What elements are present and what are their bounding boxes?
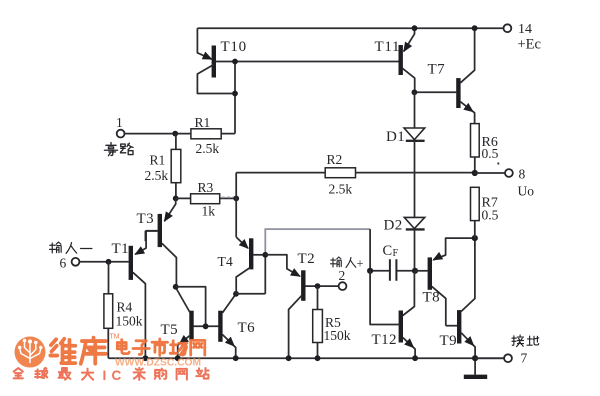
node output / R6-R7 junction [472,170,478,176]
node T4 base / T2 emitter [262,252,268,258]
node T10 collector [232,91,238,97]
svg-text:+: + [357,257,364,271]
svg-text:150k: 150k [116,314,143,329]
label T5 [161,322,178,338]
capacitor CF [370,243,415,281]
transistor T7 [414,28,476,123]
transistor T11 [400,28,415,92]
svg-text:T10: T10 [221,39,247,55]
node R1v bottom / R3 left / T3 emitter [173,196,179,202]
wire bottom ground rail [108,357,504,359]
svg-text:T6: T6 [238,320,256,336]
watermark slogan 全球最大IC采购网站 [14,368,209,383]
node T5 collector tie [173,284,179,290]
node T1 collector on rail [143,355,149,361]
svg-text:T7: T7 [428,62,446,78]
wire top +Ec rail [197,27,503,29]
terminal 1 bypass [116,115,175,138]
svg-text:R1: R1 [195,115,211,130]
resistor R7 0.5 [471,187,499,238]
node T9 collector / T8 emitter / R7 bottom [472,235,478,241]
label T7 [428,62,446,78]
svg-text:0.5: 0.5 [482,146,499,161]
svg-text:T8: T8 [423,290,440,306]
label 输入+ [331,257,364,271]
svg-text:R3: R3 [198,180,214,195]
svg-text:8: 8 [519,167,526,182]
transistor T1 [80,231,158,359]
resistor R6 0.5 [471,124,499,173]
svg-text:TM: TM [110,334,120,341]
svg-text:T4: T4 [218,254,234,269]
diode D2 [384,217,425,270]
terminal 7 ground [475,351,527,366]
wire T10 base-collector tie down to R1 [234,62,236,134]
node T6 collector / T4 collector [233,291,239,297]
label T12 [372,332,397,348]
label T8 [423,290,440,306]
svg-text:2: 2 [339,268,346,283]
scan smudge near R3 [222,196,236,198]
node T5-T6 base [203,323,209,329]
node T2 base / R5 top [315,283,321,289]
node CF right / T8 base / D2 / T12 collector [412,268,418,274]
watermark 维库 [50,338,105,364]
svg-text:F: F [393,248,399,259]
svg-text:T11: T11 [375,39,401,55]
label T10 [221,39,247,55]
transistor T10 [197,28,398,93]
transistor T3 [132,198,176,286]
label 旁路 [104,143,133,156]
svg-text:I: I [103,368,107,383]
label T1 [112,241,129,257]
node T7 base / D1 top [412,89,418,95]
label T6 [238,320,256,336]
svg-text:R4: R4 [117,300,133,315]
svg-text:C: C [383,243,393,259]
node T7 collector on rail [472,25,478,31]
svg-text:D1: D1 [386,129,405,145]
node R5 bottom on rail [315,355,321,361]
node T6 emitter on rail [233,355,239,361]
terminal 2 input+ [339,268,347,290]
label 输入一 [50,242,92,253]
transistor T12 [370,271,417,358]
transistor T4 [236,237,265,294]
label T4 [218,254,234,269]
svg-text:0.5: 0.5 [482,208,499,223]
label T11 [375,39,401,55]
node T11 emitter on rail [412,25,418,31]
svg-text:2.5k: 2.5k [329,182,353,197]
svg-text:D2: D2 [384,218,403,234]
transistor T2 [265,255,338,358]
label T2 [298,251,315,267]
wire R2 left down to T4 emitter [235,173,237,238]
transistor T5 [176,288,219,359]
resistor R5 150k [313,286,351,358]
svg-text:R1: R1 [150,153,166,168]
svg-text:T5: T5 [161,322,178,338]
svg-text:C: C [112,368,122,383]
svg-text:14: 14 [518,22,532,37]
resistor R1 horizontal 2.5k [175,115,235,156]
label T3 [137,211,154,227]
wire T5 base tie [176,287,206,327]
ground symbol [464,358,487,377]
svg-text:T2: T2 [298,251,315,267]
transistor T8 [415,238,475,326]
svg-text:+Ec: +Ec [518,37,541,53]
svg-text:Uo: Uo [518,184,535,199]
stray mark [497,162,499,164]
node ground on rail [472,355,478,361]
terminal 6 input- [60,256,80,271]
watermark logo disc [15,337,46,368]
watermark 电子市场网 [117,339,204,356]
node CF left / T12 base [367,268,373,274]
svg-text:2.5k: 2.5k [196,141,220,156]
resistor R4 150k [104,262,143,358]
svg-text:1k: 1k [202,204,216,219]
svg-text:R2: R2 [327,152,343,167]
terminal 14 +Ec [504,22,541,53]
svg-text:T1: T1 [112,241,129,257]
svg-text:WWW.DZSC.COM: WWW.DZSC.COM [115,358,201,369]
resistor R3 1k [176,180,237,219]
svg-text:7: 7 [521,351,528,366]
node T5 emitter on rail [175,355,181,361]
node T10 base [232,59,238,65]
node T2 collector on rail [286,355,292,361]
label 接地 [512,335,539,346]
diode D1 [386,92,425,145]
svg-text:150k: 150k [324,328,351,343]
label T9 [440,333,457,349]
wire T12 base riser [369,229,371,271]
node T1 base / R4 top [106,259,112,265]
node R3 right on vertical [233,196,239,202]
wire T4 base down to collector node [264,255,266,294]
svg-text:6: 6 [60,256,67,271]
transistor T9 [446,238,478,358]
resistor R2 2.5k [236,152,475,197]
transistor T6 [220,294,237,358]
WATERMARK [14,334,209,384]
svg-text:2.5k: 2.5k [145,168,169,183]
svg-text:1: 1 [116,115,123,130]
wire T4 base up and over to T12 base (faint) [265,229,370,255]
svg-text:T3: T3 [137,211,154,227]
terminal 8 Uo [475,167,534,199]
resistor R1 vertical 2.5k [145,134,181,199]
node T12 emitter on rail [412,355,418,361]
wire D1 to D2 [414,141,416,218]
node R1 junction [172,131,178,137]
svg-text:T9: T9 [440,333,457,349]
svg-text:T12: T12 [372,332,397,348]
